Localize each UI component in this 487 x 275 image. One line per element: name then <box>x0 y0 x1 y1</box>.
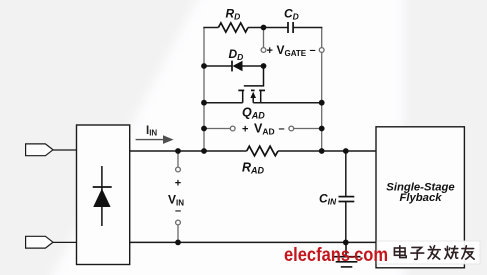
wire: top terminal to rectifier <box>53 149 77 151</box>
resistor RD <box>218 23 248 32</box>
wire: bottom terminal to rectifier <box>53 241 77 243</box>
svg-text:–: – <box>175 205 181 217</box>
wire: QAD drain-source rail <box>204 102 322 104</box>
diode DD <box>232 61 243 72</box>
wire: main top rail <box>130 150 376 152</box>
node VIN column <box>176 151 181 242</box>
char fa <box>428 246 440 259</box>
svg-text:Flyback: Flyback <box>399 192 442 204</box>
current arrow IIN <box>136 135 174 144</box>
capacitor CD <box>288 22 293 33</box>
wire: top loop <box>203 27 322 29</box>
wire: left vertical gray <box>203 28 205 152</box>
input terminal bottom <box>26 236 53 248</box>
wire: DD row <box>204 65 264 67</box>
bridge rectifier box <box>77 125 130 265</box>
diode inside rectifier <box>93 166 112 226</box>
background highlight swath <box>47 0 404 275</box>
wire: right vertical gray <box>321 28 323 152</box>
watermark chinese glyphs <box>394 246 474 260</box>
transistor QAD body arrow <box>250 92 256 98</box>
node VGATE <box>261 28 324 53</box>
ground <box>333 242 361 267</box>
char dian <box>394 246 406 258</box>
svg-text:–: – <box>279 123 285 135</box>
node VAD <box>204 126 322 131</box>
transistor QAD channel <box>238 89 265 91</box>
char you <box>462 246 474 259</box>
char zi <box>411 247 424 259</box>
input terminal top <box>26 144 53 156</box>
svg-text:+: + <box>242 123 248 135</box>
svg-text:–: – <box>310 45 316 57</box>
char shao <box>445 246 458 259</box>
transistor QAD gate wire <box>244 66 264 86</box>
Single-Stage Flyback box <box>376 127 464 268</box>
transistor QAD leads <box>243 90 261 102</box>
svg-text:+: + <box>175 178 181 190</box>
svg-text:elecfans-com: elecfans-com <box>284 245 388 266</box>
resistor RAD <box>247 146 278 156</box>
watermark white patch <box>377 241 480 264</box>
wire: bottom rail <box>130 241 376 243</box>
svg-text:+: + <box>267 45 273 57</box>
capacitor CIN branch <box>345 151 347 242</box>
capacitor CIN plates <box>339 197 355 202</box>
